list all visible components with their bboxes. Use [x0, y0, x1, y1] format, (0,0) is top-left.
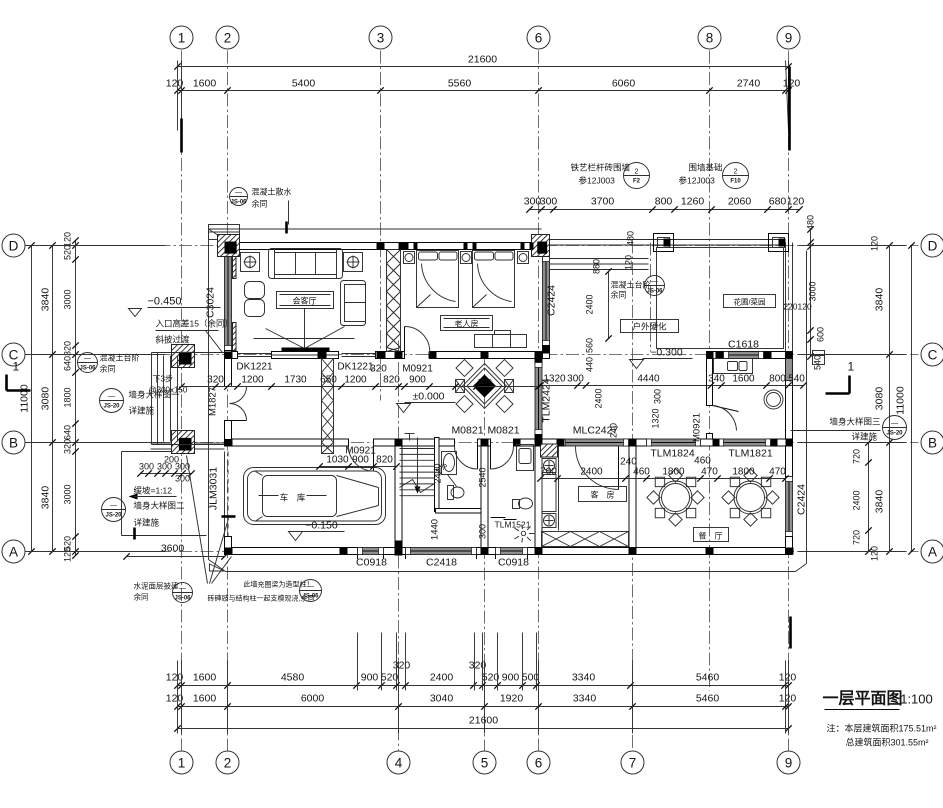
garage door middle tick	[222, 515, 236, 518]
svg-text:700: 700	[540, 467, 557, 478]
axis bubble D left	[2, 234, 25, 257]
svg-text:4580: 4580	[281, 672, 305, 684]
svg-text:900: 900	[502, 672, 520, 684]
wall dining left x632	[629, 446, 636, 548]
svg-text:1: 1	[848, 360, 855, 374]
wall row A bottom	[225, 548, 358, 555]
svg-text:墙身大样图二: 墙身大样图二	[134, 501, 186, 511]
svg-text:−0.300: −0.300	[650, 347, 683, 359]
stair walk line with arrow	[417, 438, 419, 491]
shower door TLM1521	[491, 517, 506, 519]
axis bubble 1 top	[170, 26, 193, 49]
wall left garage bottom corner	[225, 537, 232, 555]
svg-text:1: 1	[178, 755, 186, 770]
elder top wall ticks	[405, 243, 409, 250]
svg-text:2400: 2400	[585, 294, 595, 314]
wall guest left x538	[535, 446, 542, 548]
wc toilet	[448, 486, 454, 500]
porch edge lines row B	[151, 442, 225, 444]
wall row B bath-guest	[514, 439, 561, 446]
row C dim row	[182, 386, 539, 388]
wall row C mid	[376, 352, 405, 359]
svg-text:DK1221: DK1221	[236, 362, 273, 373]
garden border	[650, 243, 652, 352]
garage door dim	[320, 466, 397, 468]
svg-text:640: 640	[63, 425, 73, 440]
svg-text:640: 640	[63, 356, 73, 371]
axis bubble 8 top	[698, 26, 721, 49]
svg-text:2400: 2400	[433, 463, 443, 483]
svg-text:下3步: 下3步	[153, 375, 173, 384]
right dim extension lines	[799, 245, 906, 247]
stair treads	[400, 448, 435, 450]
dim 3600 garage	[127, 556, 225, 558]
shower head	[521, 531, 525, 535]
window C1618	[724, 352, 764, 359]
tv and rug lines	[254, 338, 355, 340]
svg-text:余同: 余同	[252, 199, 268, 209]
svg-text:4440: 4440	[637, 374, 660, 385]
svg-text:—: —	[651, 279, 658, 286]
wall kitchen top row C	[707, 352, 793, 359]
svg-text:1800: 1800	[732, 467, 755, 478]
svg-text:3840: 3840	[874, 490, 886, 514]
svg-text:2: 2	[224, 755, 232, 770]
svg-text:320: 320	[370, 364, 387, 375]
svg-text:JS-06: JS-06	[302, 594, 319, 600]
guest wardrobe x-band	[542, 532, 629, 547]
eave corner bottom-right	[796, 564, 807, 572]
svg-text:470: 470	[701, 467, 718, 478]
svg-text:9: 9	[785, 30, 793, 45]
svg-text:1730: 1730	[284, 375, 307, 386]
svg-text:11000: 11000	[19, 384, 31, 413]
svg-text:TLM1521: TLM1521	[495, 520, 531, 530]
right dim B-A inner	[868, 443, 870, 552]
wall dining right lower	[786, 537, 793, 555]
stair up mark	[405, 433, 415, 435]
bed 1	[417, 251, 459, 308]
wall row C left part	[225, 352, 238, 359]
svg-text:入口高差15（余同）: 入口高差15（余同）	[156, 319, 233, 329]
svg-text:900: 900	[409, 375, 426, 386]
svg-text:120: 120	[63, 232, 73, 247]
svg-text:320: 320	[63, 439, 73, 454]
svg-text:砖硨豉与结构柱一起支模现浇,余同: 砖硨豉与结构柱一起支模现浇,余同	[208, 594, 315, 603]
wall row B garage-stair	[374, 439, 455, 446]
door guest room	[618, 447, 620, 490]
nightstand 3	[518, 252, 529, 264]
svg-text:C3024: C3024	[205, 287, 217, 318]
window TLM1824	[647, 439, 701, 446]
svg-text:2400: 2400	[430, 672, 454, 684]
car cabin	[263, 476, 337, 517]
bottom dim row 1	[178, 685, 789, 687]
svg-text:120: 120	[166, 78, 184, 90]
yard steps	[550, 258, 649, 260]
svg-text:3840: 3840	[40, 288, 52, 312]
svg-text:TLM1824: TLM1824	[650, 448, 695, 460]
wall row B between doors	[478, 439, 491, 446]
grid col 9	[788, 51, 790, 751]
svg-text:220120: 220120	[783, 302, 812, 312]
svg-text:JS-20: JS-20	[103, 404, 120, 410]
window-door MLC2427 row B	[561, 439, 629, 446]
armchair 2	[245, 300, 265, 317]
svg-text:混凝土台阶: 混凝土台阶	[100, 353, 140, 363]
svg-text:1: 1	[178, 30, 186, 45]
svg-text:3040: 3040	[430, 693, 454, 705]
garden inner bed	[657, 248, 784, 349]
svg-text:此墙充圈梁为造型柱！: 此墙充圈梁为造型柱！	[244, 580, 314, 589]
svg-text:F2: F2	[633, 179, 641, 185]
svg-text:斜披过渡: 斜披过渡	[156, 335, 191, 345]
garage door JLM3031 dashed	[227, 452, 229, 537]
svg-text:460: 460	[633, 467, 650, 478]
wall row B main	[225, 439, 349, 446]
svg-text:M0921: M0921	[402, 364, 433, 375]
top yard dim row	[530, 209, 800, 211]
wall left door-to-B	[225, 421, 232, 447]
svg-text:1320: 1320	[651, 408, 661, 428]
door DK1221 opening left	[238, 353, 272, 355]
svg-text:3: 3	[377, 30, 385, 45]
svg-text:720: 720	[852, 530, 862, 545]
svg-text:余同: 余同	[100, 364, 116, 374]
svg-text:TLM2424: TLM2424	[541, 378, 553, 423]
svg-text:D: D	[9, 238, 19, 253]
svg-text:详建施: 详建施	[134, 518, 160, 528]
guest room label box	[579, 487, 627, 502]
section line tick bottom right	[789, 617, 792, 649]
svg-text:1800: 1800	[63, 387, 73, 407]
axis bubble 5 bottom	[473, 751, 496, 774]
right dim upper inner	[810, 230, 812, 357]
svg-text:300: 300	[567, 374, 584, 385]
svg-text:C2424: C2424	[546, 285, 558, 316]
svg-text:560: 560	[585, 338, 595, 353]
svg-text:720: 720	[852, 449, 862, 464]
svg-text:1600: 1600	[193, 672, 217, 684]
svg-text:320: 320	[469, 660, 487, 672]
svg-text:3700: 3700	[591, 196, 615, 208]
wall note bottom leaders	[187, 456, 208, 584]
svg-text:120: 120	[166, 672, 184, 684]
svg-text:会客厅: 会客厅	[293, 296, 317, 306]
porch column C1	[172, 345, 195, 368]
ramp outline bottom-left	[121, 452, 123, 536]
svg-text:3080: 3080	[40, 387, 52, 411]
door M0921 garage	[373, 446, 375, 471]
sofa main	[269, 249, 343, 279]
svg-text:6000: 6000	[301, 693, 325, 705]
dining table 2	[722, 469, 779, 526]
svg-text:300: 300	[478, 524, 488, 539]
svg-text:F10: F10	[730, 179, 741, 185]
svg-text:120: 120	[779, 672, 797, 684]
svg-text:6060: 6060	[612, 78, 636, 90]
wall elder right x545	[543, 243, 550, 257]
svg-text:—: —	[179, 586, 186, 593]
grid row D	[29, 245, 919, 247]
wall detail note two circle	[102, 498, 126, 522]
svg-text:1800: 1800	[662, 467, 685, 478]
svg-text:480: 480	[626, 231, 636, 246]
svg-text:1: 1	[13, 360, 20, 374]
svg-text:120: 120	[787, 196, 805, 208]
grid row C	[29, 354, 919, 356]
svg-text:−0.150: −0.150	[305, 520, 338, 532]
svg-text:11000: 11000	[895, 386, 907, 415]
svg-text:120: 120	[870, 236, 880, 251]
svg-text:120: 120	[166, 693, 184, 705]
end table lamp left	[241, 253, 260, 272]
top dim total 21600	[178, 66, 789, 68]
svg-text:680: 680	[769, 196, 787, 208]
svg-text:JS-06: JS-06	[174, 596, 191, 602]
bottom dim total 21600	[178, 728, 789, 730]
svg-text:C2424: C2424	[796, 484, 808, 515]
svg-text:JS-20: JS-20	[886, 431, 903, 437]
dining dim row	[541, 478, 786, 480]
svg-text:240: 240	[609, 423, 619, 438]
svg-text:3600: 3600	[161, 543, 185, 555]
axis bubble B left	[2, 431, 25, 454]
garden label	[724, 295, 776, 308]
entry walk	[151, 353, 153, 445]
bath toilet	[513, 500, 520, 509]
car windshield lines	[337, 476, 379, 488]
svg-text:1260: 1260	[681, 196, 705, 208]
top dim row segments	[178, 90, 789, 92]
section mark 1 left	[7, 360, 31, 391]
axis bubble B right	[921, 431, 943, 454]
svg-text:M1827: M1827	[208, 387, 219, 416]
svg-text:5460: 5460	[696, 693, 720, 705]
svg-text:围墙基础: 围墙基础	[689, 163, 723, 173]
svg-text:820: 820	[383, 375, 400, 386]
eave corner bottom-left	[209, 560, 226, 572]
svg-text:520: 520	[63, 245, 73, 260]
svg-text:JLM3031: JLM3031	[208, 467, 220, 510]
svg-text:2: 2	[734, 169, 738, 176]
svg-text:1600: 1600	[732, 374, 755, 385]
svg-text:300: 300	[175, 474, 190, 484]
axis bubble 4 bottom	[387, 751, 410, 774]
wall kitchen left x709	[707, 359, 713, 406]
svg-text:参12J003: 参12J003	[679, 176, 716, 186]
svg-text:2400: 2400	[580, 467, 603, 478]
svg-text:D: D	[928, 238, 938, 253]
fence post 1	[654, 234, 674, 252]
svg-text:900: 900	[361, 672, 379, 684]
window C0918 right	[496, 548, 528, 555]
wall left between C and door	[225, 359, 232, 387]
grid col 6	[538, 51, 540, 751]
wall detail note one	[100, 389, 124, 413]
axis bubble 9 top	[777, 26, 800, 49]
svg-text:−0.450: −0.450	[148, 296, 182, 308]
svg-text:320: 320	[63, 341, 73, 356]
elder dresser	[475, 335, 527, 348]
svg-text:800: 800	[769, 374, 786, 385]
left dim axis spacings	[52, 246, 54, 552]
axis bubble 9 bottom	[777, 751, 800, 774]
wall dining right upper	[786, 446, 793, 477]
svg-text:A: A	[928, 544, 937, 559]
eave line bottom	[226, 571, 796, 573]
left dim extension lines	[26, 245, 166, 247]
svg-text:120: 120	[63, 547, 73, 562]
porch step dims	[141, 473, 192, 475]
svg-text:440: 440	[585, 357, 595, 372]
grid col 3	[380, 51, 382, 401]
left dim total 11000	[31, 246, 33, 552]
splash note top	[230, 188, 248, 206]
svg-text:1600: 1600	[193, 78, 217, 90]
svg-text:300: 300	[157, 462, 172, 472]
svg-text:820: 820	[376, 455, 393, 466]
grid col 4	[398, 341, 400, 751]
grid col 5	[484, 353, 486, 751]
svg-text:340: 340	[708, 374, 725, 385]
svg-text:3340: 3340	[573, 693, 597, 705]
svg-text:混凝土散水: 混凝土散水	[252, 187, 292, 197]
svg-text:铁艺栏杆砖围墙: 铁艺栏杆砖围墙	[571, 163, 631, 173]
svg-text:900: 900	[352, 455, 369, 466]
svg-text:480: 480	[806, 215, 816, 230]
wall elder right lower	[543, 346, 550, 359]
svg-text:4: 4	[395, 755, 403, 770]
svg-text:DK1221: DK1221	[337, 362, 374, 373]
yard vertical dim line	[608, 272, 610, 339]
svg-text:注：本层建筑面积175.51m²: 注：本层建筑面积175.51m²	[827, 723, 937, 734]
section line tick top right	[788, 67, 791, 151]
svg-text:余同: 余同	[611, 290, 627, 300]
svg-text:B: B	[9, 435, 18, 450]
grid col 7	[632, 241, 634, 751]
top dim extension lines	[177, 61, 179, 131]
svg-text:详建施: 详建施	[852, 432, 878, 442]
svg-text:户外硬化: 户外硬化	[632, 322, 667, 332]
svg-text:一层平面图: 一层平面图	[822, 690, 902, 708]
elder room label box	[441, 316, 493, 331]
kitchen water heater	[764, 390, 783, 409]
window TLM2424 hall east	[535, 363, 542, 435]
wall top row D	[225, 243, 542, 250]
wall yard right upper	[785, 243, 787, 352]
grid row A	[29, 551, 919, 553]
svg-text:320: 320	[393, 660, 411, 672]
svg-text:880: 880	[592, 259, 602, 274]
svg-text:—: —	[110, 503, 117, 510]
svg-text:5400: 5400	[292, 78, 316, 90]
svg-text:120: 120	[870, 546, 880, 561]
bottom dim row 2	[178, 706, 789, 708]
svg-text:300: 300	[139, 462, 154, 472]
yard fence top	[550, 239, 786, 241]
door M0821 bath	[490, 446, 492, 469]
svg-text:7: 7	[629, 755, 637, 770]
wall WC left	[435, 438, 440, 512]
svg-text:1600: 1600	[193, 693, 217, 705]
svg-text:3000: 3000	[63, 484, 73, 504]
svg-text:1320: 1320	[543, 374, 566, 385]
svg-text:3340: 3340	[572, 672, 596, 684]
svg-text:TLM1821: TLM1821	[728, 448, 773, 460]
svg-text:C0918: C0918	[356, 557, 387, 569]
svg-text:540: 540	[788, 374, 805, 385]
svg-text:—: —	[84, 356, 91, 363]
ramp wedge	[210, 564, 225, 571]
window TLM1821	[719, 439, 771, 446]
flue wall living-elder with cross hatch	[387, 250, 401, 352]
window C2418	[406, 548, 477, 555]
bed 2	[473, 251, 515, 308]
svg-text:—: —	[891, 421, 898, 428]
svg-text:2: 2	[635, 169, 639, 176]
column hatch top-right corner	[532, 235, 550, 257]
svg-text:M0821: M0821	[487, 425, 519, 437]
svg-text:客 房: 客 房	[591, 490, 615, 500]
axis bubble 1 bottom	[170, 751, 193, 774]
svg-text:±0.000: ±0.000	[412, 391, 444, 403]
door DK1221 opening right	[342, 353, 376, 355]
wall WC bottom	[436, 509, 485, 514]
window C2424 elder room	[543, 257, 550, 346]
svg-text:M0921: M0921	[692, 413, 703, 442]
svg-text:B: B	[928, 435, 937, 450]
axis bubble A right	[921, 540, 943, 563]
nightstand 1	[404, 252, 415, 264]
kitchen sink counter	[714, 359, 753, 374]
svg-text:C: C	[928, 347, 938, 362]
wc slope arrow 1%	[448, 475, 457, 487]
bath washstand	[517, 445, 534, 471]
wall hall right bottom cap	[535, 435, 542, 447]
svg-text:—: —	[108, 394, 115, 401]
axis bubble 7 bottom	[621, 751, 644, 774]
svg-text:C2418: C2418	[426, 557, 457, 569]
nightstand 2	[461, 252, 472, 264]
sofa right	[341, 281, 366, 326]
svg-text:A: A	[9, 544, 18, 559]
grid col 1	[181, 51, 183, 751]
svg-text:600: 600	[816, 327, 826, 342]
svg-text:花圃/菜园: 花圃/菜园	[733, 297, 765, 307]
section line tick top left	[180, 119, 183, 153]
dining label box	[694, 528, 729, 542]
column hatch top-left corner	[218, 235, 240, 257]
bottom dim extension lines	[357, 633, 359, 691]
wc washbasin	[442, 452, 457, 475]
svg-text:6: 6	[535, 755, 543, 770]
axis bubble C right	[921, 343, 943, 366]
svg-text:460: 460	[694, 456, 711, 467]
svg-text:3840: 3840	[40, 486, 52, 510]
svg-text:参12J003: 参12J003	[579, 176, 616, 186]
svg-text:300: 300	[653, 389, 663, 404]
floor medallion	[456, 360, 514, 413]
svg-text:1920: 1920	[500, 693, 524, 705]
svg-text:C0918: C0918	[498, 557, 529, 569]
fence post 2	[769, 234, 789, 252]
svg-text:2400: 2400	[594, 388, 604, 408]
wall garage right x398	[395, 446, 402, 548]
svg-text:JS-06: JS-06	[230, 200, 247, 206]
svg-text:540: 540	[813, 355, 823, 370]
svg-text:JS-20: JS-20	[105, 513, 122, 519]
